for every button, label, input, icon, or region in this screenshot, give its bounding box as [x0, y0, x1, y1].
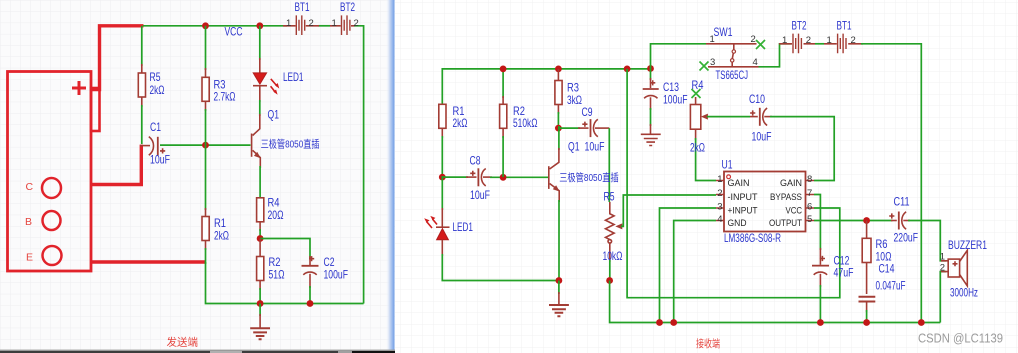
capacitor C8 [478, 168, 492, 186]
pin circle E [43, 246, 62, 265]
C12 plus [820, 256, 825, 261]
svg-text:20Ω: 20Ω [268, 208, 284, 222]
ground symbol (C13) [641, 134, 661, 145]
R5 wiper arrow [615, 223, 622, 229]
junction bus/R3 [555, 66, 562, 73]
junction bus/pin4 [670, 319, 677, 326]
svg-text:C: C [26, 181, 34, 193]
wire C9 to R5 top [608, 128, 610, 202]
svg-text:BT1: BT1 [837, 19, 852, 33]
wire top bus [442, 69, 650, 104]
C13 plus [650, 80, 655, 85]
svg-text:SW1: SW1 [714, 25, 733, 39]
svg-text:10uF: 10uF [752, 129, 772, 143]
svg-text:2: 2 [851, 35, 856, 46]
svg-text:GND: GND [728, 218, 747, 229]
C8 plus [470, 171, 475, 176]
capacitor C1 [140, 137, 158, 156]
svg-text:GAIN: GAIN [728, 178, 750, 189]
svg-text:三极管8050直插: 三极管8050直插 [559, 171, 619, 184]
U1 pin stubs left [716, 181, 724, 221]
mic plus terminal [72, 81, 86, 95]
wire node to C8 [442, 176, 468, 178]
svg-text:1: 1 [717, 174, 722, 185]
capacitor C14 [859, 297, 876, 312]
svg-text:6: 6 [807, 202, 812, 213]
battery BT1 [283, 15, 319, 35]
wire buzzer pin2 to bus [940, 272, 946, 323]
svg-text:C9: C9 [582, 105, 593, 119]
svg-text:47uF: 47uF [834, 265, 854, 279]
wire BT1-BT2 link [319, 25, 331, 27]
junction R1/C8 node [439, 174, 446, 181]
capacitor C9 [591, 119, 610, 137]
resistor R3 [205, 26, 207, 70]
svg-text:GAIN: GAIN [780, 178, 802, 189]
wire bottom bus [610, 281, 941, 323]
svg-text:10uF: 10uF [470, 188, 490, 202]
transistor Q1 [252, 114, 261, 197]
wire up to SW1 [651, 44, 707, 69]
svg-text:4: 4 [717, 214, 722, 225]
svg-text:220uF: 220uF [894, 231, 919, 245]
junction emitter/gnd wire [556, 277, 563, 284]
resistor R6 [862, 221, 871, 295]
svg-text:3: 3 [717, 202, 722, 213]
R4 no-connect X [692, 89, 701, 98]
svg-text:8: 8 [807, 174, 812, 185]
svg-text:LED1: LED1 [283, 70, 304, 84]
svg-text:U1: U1 [722, 158, 733, 172]
resistor R1 [439, 104, 446, 128]
capacitor C12 [812, 248, 829, 287]
C9 plus [582, 122, 587, 127]
svg-text:BT2: BT2 [340, 0, 355, 14]
switch SW1 [700, 40, 766, 71]
svg-text:C11: C11 [894, 195, 910, 209]
wire BT1 to right edge down [861, 44, 921, 323]
svg-text:BT1: BT1 [295, 0, 310, 14]
LED LED1 [253, 26, 279, 116]
junction R3/C9/Q1 collector [555, 125, 562, 132]
svg-text:7: 7 [807, 188, 812, 199]
junction R5/bottom [606, 277, 613, 284]
junction bus/right edge [918, 319, 925, 326]
BUZZER1 plus [953, 261, 958, 266]
junction bus/C13/SW1 [647, 65, 654, 72]
svg-text:3kΩ: 3kΩ [567, 93, 582, 107]
svg-text:1: 1 [332, 18, 337, 29]
svg-text:BT2: BT2 [792, 19, 807, 33]
svg-text:TS665CJ: TS665CJ [716, 68, 749, 82]
svg-text:2: 2 [309, 18, 314, 29]
svg-text:2: 2 [806, 35, 811, 46]
svg-text:R5: R5 [604, 190, 615, 204]
resistor R2 [502, 69, 504, 98]
resistor R3 [557, 69, 559, 81]
capacitor C11 [891, 212, 910, 230]
svg-text:10kΩ: 10kΩ [603, 249, 623, 263]
mic module box [8, 72, 92, 272]
svg-text:4: 4 [753, 57, 758, 68]
C10 plus [750, 110, 755, 115]
svg-text:OUTPUT: OUTPUT [769, 218, 802, 229]
ground symbol [250, 304, 270, 340]
svg-text:2kΩ: 2kΩ [214, 228, 229, 242]
resistor R4 [257, 198, 264, 222]
svg-text:1: 1 [940, 252, 945, 263]
svg-text:C8: C8 [470, 153, 481, 167]
svg-text:Q1: Q1 [568, 139, 580, 153]
wire C10 to pin8 [770, 117, 834, 181]
junction pin5/R6 [863, 217, 870, 224]
capacitor C2 [302, 256, 319, 304]
junction R2/base [500, 174, 507, 181]
buzzer BUZZER1 [941, 250, 967, 286]
junction base node [202, 142, 209, 149]
C1 plus [160, 148, 165, 153]
junction bus/R2 [257, 300, 264, 307]
junction bus/C12 [817, 319, 824, 326]
LED1 receive arrows [427, 222, 433, 229]
svg-text:510kΩ: 510kΩ [513, 116, 538, 130]
svg-text:LED1: LED1 [453, 220, 474, 234]
svg-text:三极管8050直插: 三极管8050直插 [261, 137, 320, 150]
wire mic E row to R1 column [91, 260, 206, 263]
svg-text:E: E [26, 252, 33, 264]
svg-text:+INPUT: +INPUT [728, 206, 758, 217]
svg-text:C1: C1 [150, 120, 161, 134]
U1 pin stubs right [806, 181, 815, 221]
svg-text:1: 1 [710, 34, 715, 45]
svg-text:R5: R5 [150, 70, 161, 84]
svg-text:2kΩ: 2kΩ [453, 116, 468, 130]
capacitor C10 [750, 108, 772, 126]
IC U1 LM386 [724, 172, 806, 232]
svg-text:C10: C10 [749, 92, 765, 106]
svg-text:2kΩ: 2kΩ [690, 140, 705, 154]
svg-text:Q1: Q1 [268, 108, 280, 122]
junction R4/R2/C2 [257, 235, 264, 242]
svg-text:100uF: 100uF [663, 92, 688, 106]
wire pin5 output row [814, 220, 893, 222]
wire mic C row to C1 node [91, 145, 141, 185]
ground symbol (Q1 emitter) [549, 281, 569, 317]
resistor R5 (pot, zigzag) [606, 202, 615, 262]
svg-text:2: 2 [717, 188, 722, 199]
junction bus/VCC line [624, 66, 631, 73]
LED LED1 (receiver) [424, 176, 557, 281]
U1 pin1 marker [727, 175, 731, 179]
potentiometer R4 [690, 97, 700, 140]
svg-text:C14: C14 [879, 262, 895, 276]
R4 wiper arrow [701, 114, 708, 120]
svg-text:接收端: 接收端 [696, 337, 720, 350]
svg-text:1: 1 [286, 18, 291, 29]
bottom window edge bar [0, 350, 395, 351]
wire C11 to buzzer pin1 [908, 221, 946, 261]
mic tab rectangle [91, 88, 100, 131]
wire C8 to Q1 base [490, 176, 548, 178]
svg-text:10uF: 10uF [150, 153, 170, 167]
SW1 pin3 no-connect X [700, 62, 709, 71]
wire mic+ to VCC [92, 26, 144, 90]
wire node to C9 [558, 127, 580, 129]
svg-text:5: 5 [807, 214, 812, 225]
LED1 emission arrows [271, 79, 278, 87]
C11 plus [889, 213, 894, 218]
pin circle C [42, 178, 61, 198]
svg-text:0.047uF: 0.047uF [876, 279, 906, 293]
svg-text:2: 2 [940, 263, 945, 274]
svg-text:10uF: 10uF [585, 139, 605, 153]
svg-text:51Ω: 51Ω [269, 267, 285, 281]
blue scrollbar strip between screenshots [386, 0, 395, 350]
junction bus/R2 [500, 66, 507, 73]
capacitor C13 [643, 69, 659, 134]
svg-text:2: 2 [354, 18, 359, 29]
wire pin3 to bus [660, 208, 717, 323]
svg-text:BUZZER1: BUZZER1 [948, 238, 987, 252]
wire BT2 to right edge [354, 26, 364, 304]
wire node to C2 [260, 239, 310, 259]
battery BT2 (receiver) [779, 34, 815, 54]
svg-text:3000Hz: 3000Hz [950, 286, 978, 300]
svg-text:发送端: 发送端 [167, 336, 199, 349]
junction VCC/LED1 [256, 22, 263, 29]
svg-text:100uF: 100uF [324, 267, 349, 281]
wire SW1 pin4 to battery [759, 44, 792, 67]
C2 plus [309, 256, 314, 261]
background left screenshot [0, 0, 395, 353]
wire VCC bus [143, 25, 287, 27]
svg-text:3: 3 [710, 57, 715, 68]
svg-text:2kΩ: 2kΩ [150, 83, 165, 97]
wire bottom bus [206, 262, 364, 304]
junction VCC/R3 [202, 22, 209, 29]
svg-text:2: 2 [751, 34, 756, 45]
svg-text:CSDN @LC1139: CSDN @LC1139 [918, 332, 1003, 346]
battery BT1 (receiver) [824, 34, 863, 54]
junction bus/C14 [863, 319, 870, 326]
junction bus/pin3 [656, 319, 663, 326]
svg-text:LM386G-S08-R: LM386G-S08-R [724, 231, 781, 245]
svg-text:VCC: VCC [786, 206, 803, 217]
svg-text:BYPASS: BYPASS [770, 192, 802, 203]
resistor R2 [259, 239, 261, 257]
wire BT2-BT1 link [815, 43, 824, 45]
resistor R1 [205, 145, 207, 210]
background right screenshot [395, 0, 1018, 353]
svg-text:2.7kΩ: 2.7kΩ [214, 89, 236, 103]
svg-text:1: 1 [782, 35, 787, 46]
svg-text:VCC: VCC [225, 25, 243, 39]
junction bus/C2 [307, 300, 314, 307]
SW1 pin2 no-connect X [756, 40, 765, 49]
svg-text:-INPUT: -INPUT [728, 192, 758, 203]
svg-text:B: B [25, 216, 32, 228]
wire pin4 to bus [674, 221, 716, 323]
svg-text:1: 1 [827, 35, 832, 46]
wire VCC feed line [627, 69, 840, 298]
battery BT2 [330, 15, 355, 35]
wire C1 to base node [160, 144, 251, 146]
pin circle B [43, 211, 61, 230]
transistor Q1 (receiver) [549, 126, 560, 281]
wire pin7 to C12 [814, 195, 820, 251]
resistor R5 [141, 26, 143, 66]
svg-text:R4: R4 [692, 78, 704, 92]
